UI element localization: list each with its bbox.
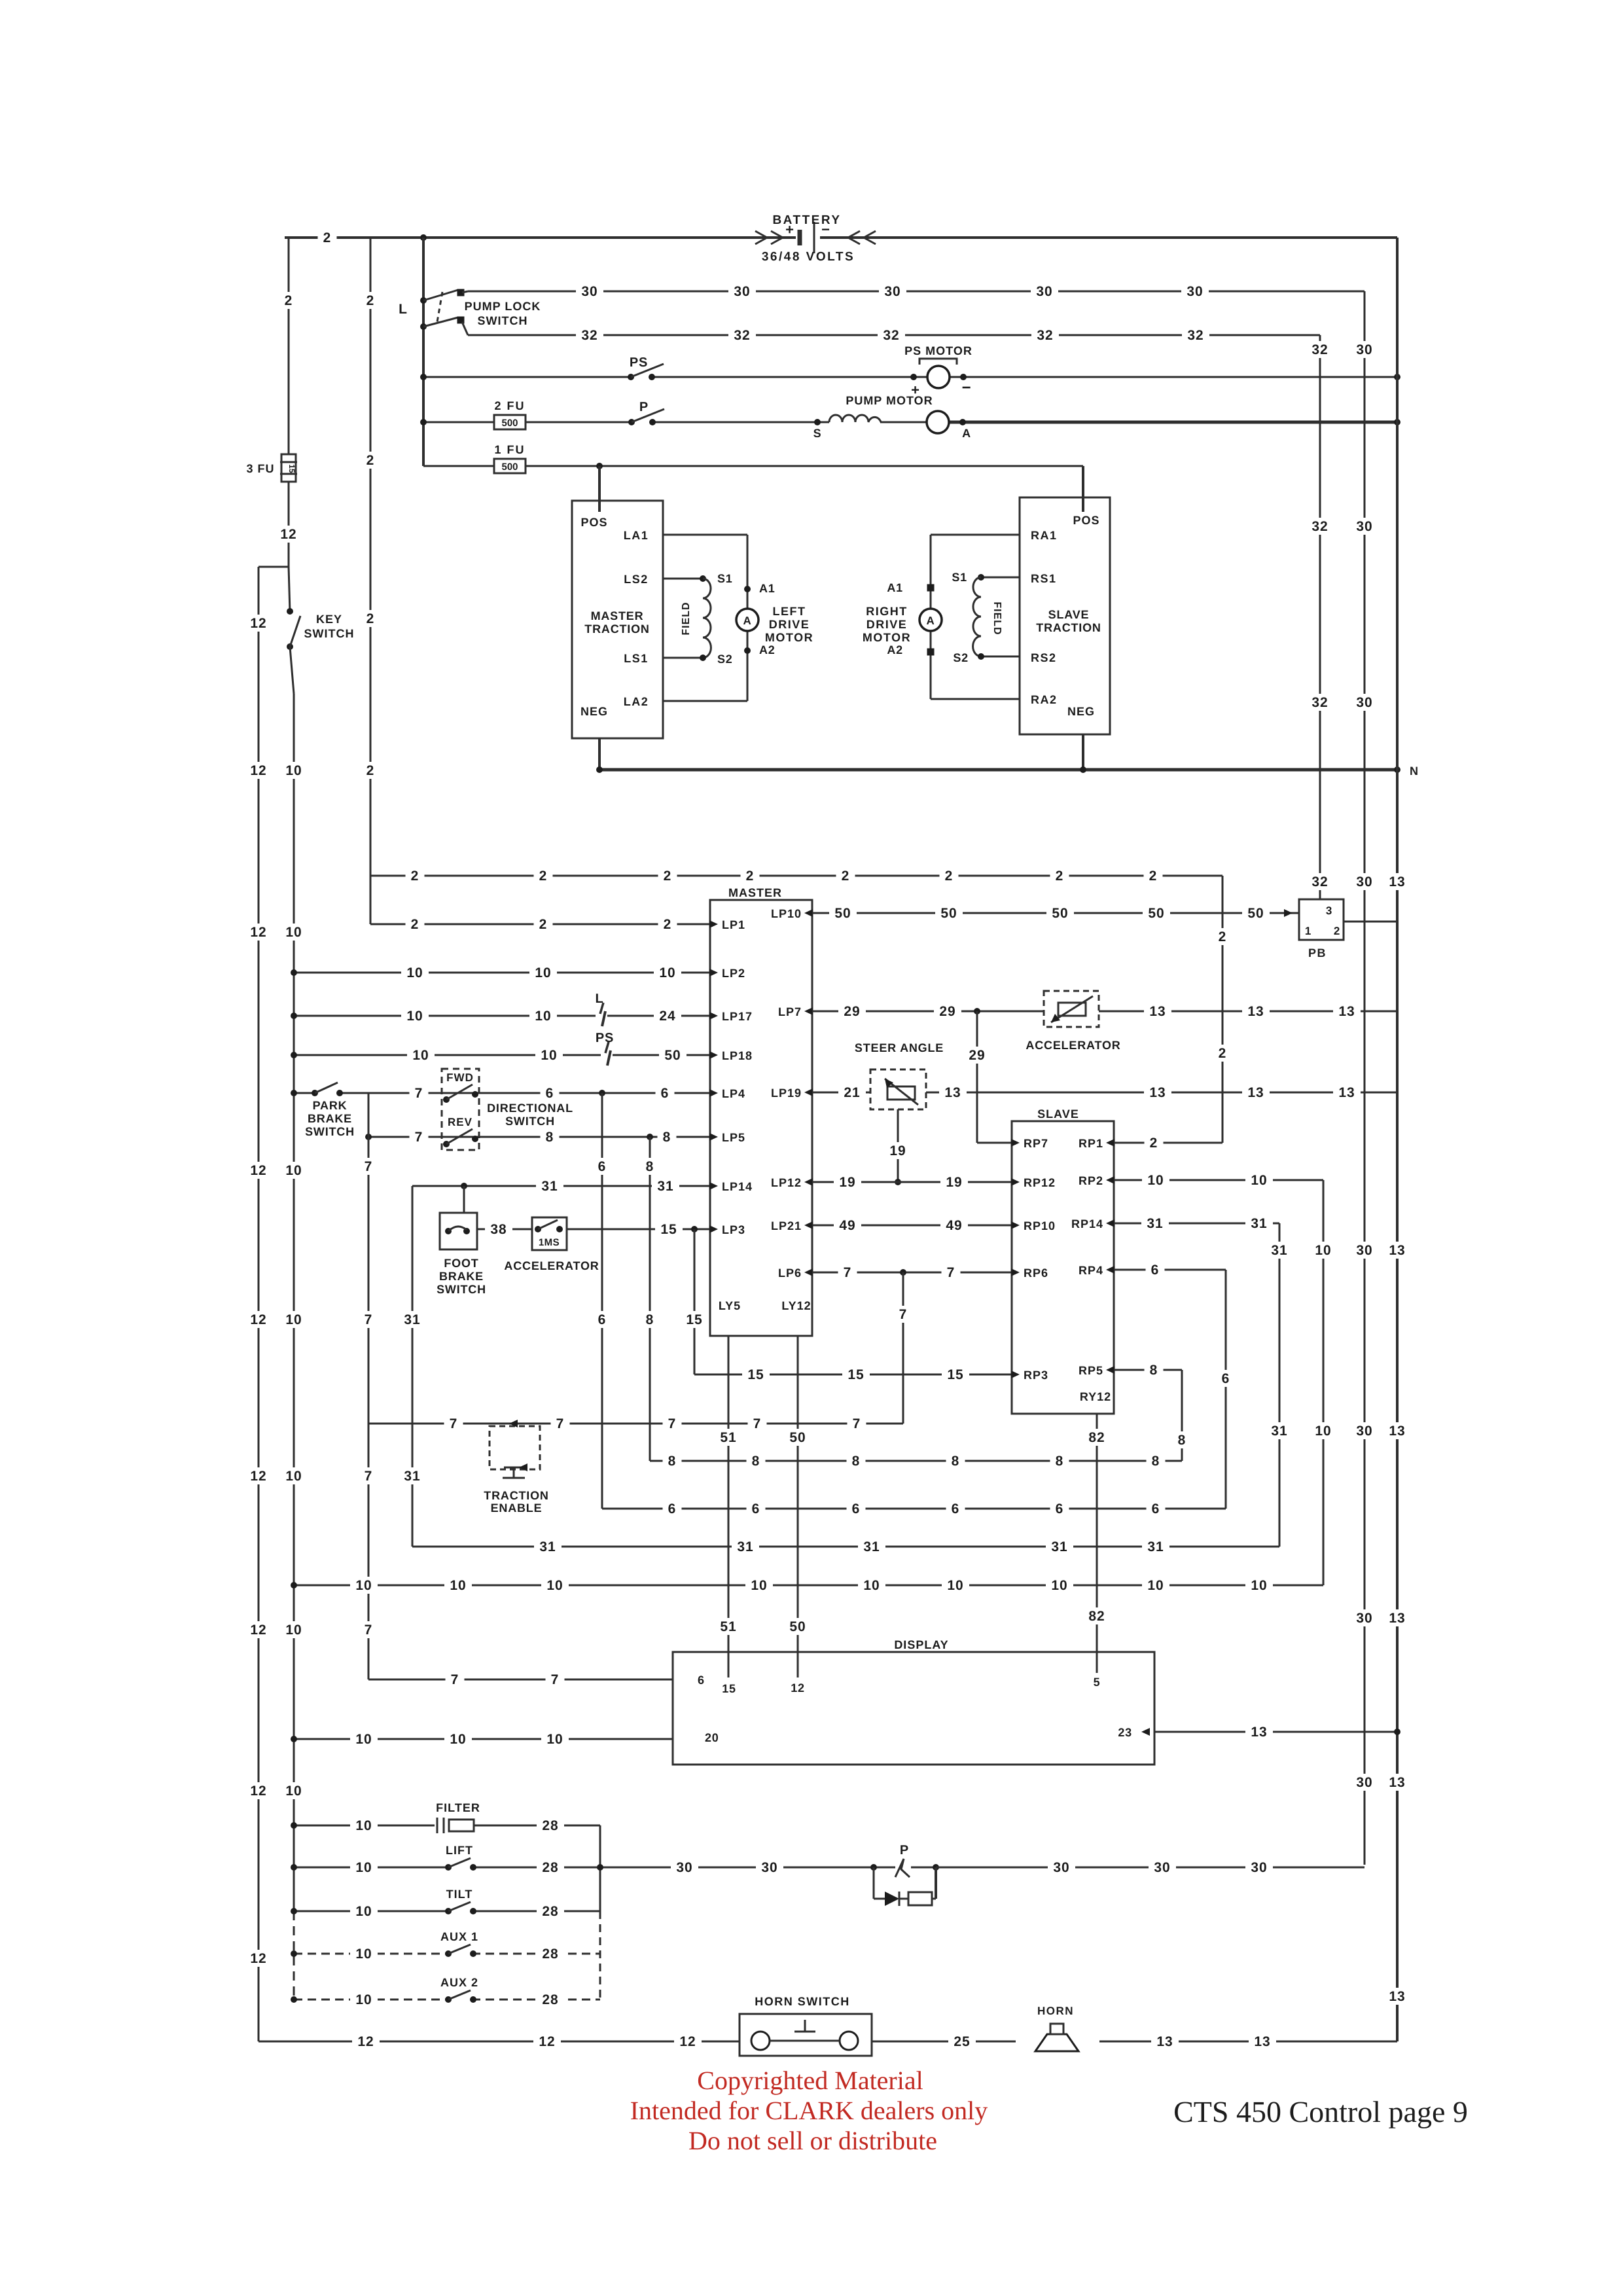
svg-text:10: 10	[406, 965, 423, 980]
wire 49 LP21 to RP10	[812, 1217, 1012, 1234]
svg-text:25: 25	[954, 2034, 970, 2049]
svg-text:5: 5	[1094, 1676, 1101, 1689]
pin RP1	[1079, 1137, 1115, 1150]
svg-text:13: 13	[1389, 1243, 1405, 1258]
wire 8 row	[650, 1452, 1182, 1469]
svg-text:15: 15	[722, 1682, 736, 1695]
svg-text:S2: S2	[953, 651, 969, 664]
wire 7 rail	[359, 1093, 378, 1679]
wire 30 top row	[468, 283, 1364, 300]
svg-text:ENABLE: ENABLE	[491, 1501, 543, 1515]
svg-text:8: 8	[1152, 1454, 1160, 1469]
svg-text:12: 12	[250, 1951, 266, 1966]
wire 10 rail RP2 down	[1310, 1180, 1337, 1585]
svg-text:31: 31	[863, 1539, 880, 1554]
svg-text:7: 7	[853, 1416, 861, 1431]
svg-text:DISPLAY: DISPLAY	[894, 1638, 948, 1651]
wire 10/28 FILTER row	[291, 1817, 600, 1834]
svg-text:8: 8	[646, 1312, 654, 1327]
svg-text:21: 21	[844, 1085, 860, 1100]
svg-text:30: 30	[1356, 695, 1372, 710]
svg-text:12: 12	[539, 2034, 555, 2049]
svg-text:PUMP LOCK: PUMP LOCK	[465, 300, 541, 313]
svg-text:A1: A1	[887, 581, 903, 594]
svg-text:12: 12	[250, 1312, 266, 1327]
svg-text:1: 1	[1305, 925, 1311, 937]
svg-text:POS: POS	[1073, 514, 1099, 527]
wire 21/13 LP19 row	[812, 1084, 1397, 1101]
svg-text:10: 10	[450, 1578, 466, 1593]
svg-text:30: 30	[734, 284, 750, 299]
wire LY12 drop	[784, 1336, 811, 1677]
inline connector L	[595, 992, 607, 1028]
svg-text:RA2: RA2	[1031, 693, 1058, 706]
svg-text:A: A	[962, 427, 971, 440]
wire park brake row to LP4	[291, 1085, 710, 1102]
svg-text:8: 8	[952, 1454, 960, 1469]
wire 10/28 AUX2 row	[291, 1991, 600, 2008]
svg-text:13: 13	[1389, 1775, 1405, 1790]
svg-text:28: 28	[542, 1992, 558, 2007]
svg-text:10: 10	[285, 1784, 302, 1799]
wire battery feed rail	[422, 238, 425, 466]
svg-text:2: 2	[1219, 1046, 1227, 1061]
pin LP2	[709, 967, 745, 980]
svg-text:LP12: LP12	[771, 1176, 802, 1189]
wire 10 rail below key switch	[280, 647, 308, 2000]
pin LY12	[781, 1299, 811, 1312]
wire 10/50 row to LP18	[291, 1047, 710, 1064]
wire 2 RP1 row	[1114, 1134, 1222, 1151]
svg-text:12: 12	[357, 2034, 374, 2049]
svg-text:PS: PS	[630, 355, 648, 370]
key switch S-KEY	[287, 567, 300, 650]
svg-text:NEG: NEG	[580, 705, 608, 718]
svg-text:7: 7	[365, 1312, 373, 1327]
svg-text:TRACTION: TRACTION	[484, 1489, 548, 1502]
svg-text:31: 31	[1271, 1243, 1287, 1258]
svg-text:RP4: RP4	[1079, 1264, 1103, 1277]
wire 19 LP12 to RP12	[812, 1174, 1012, 1191]
svg-text:MOTOR: MOTOR	[863, 631, 911, 644]
wire 2 rail to slave RP1	[1213, 876, 1232, 1143]
svg-text:7: 7	[415, 1130, 423, 1145]
pin LP10	[771, 907, 813, 920]
svg-text:PB: PB	[1308, 946, 1327, 960]
wire master POS stub	[598, 466, 601, 512]
svg-text:L: L	[399, 302, 408, 317]
svg-text:LA1: LA1	[624, 529, 649, 542]
svg-text:LS1: LS1	[624, 652, 649, 665]
connector PB	[1299, 899, 1344, 960]
label ACCELERATOR	[1026, 1039, 1120, 1052]
switch AUX 1	[445, 1945, 476, 1957]
pin LP6	[778, 1266, 813, 1280]
svg-text:RP6: RP6	[1024, 1266, 1048, 1280]
battery B1 symbol	[755, 221, 876, 253]
svg-text:32: 32	[1311, 342, 1328, 357]
svg-text:12: 12	[791, 1681, 805, 1695]
svg-text:30: 30	[1053, 1860, 1069, 1875]
panel SLAVE logic box	[1012, 1121, 1114, 1414]
svg-text:LS2: LS2	[624, 573, 649, 586]
svg-text:RA1: RA1	[1031, 529, 1058, 542]
fuse 2FU 500A	[494, 399, 526, 429]
inline connector PS	[596, 1031, 614, 1067]
pin LP4	[709, 1087, 745, 1100]
switch AUX 2	[445, 1990, 476, 2003]
svg-text:LA2: LA2	[624, 695, 649, 708]
wire 31 row	[412, 1538, 1279, 1555]
svg-text:30: 30	[884, 284, 901, 299]
wire 10 RP2 row	[1114, 1172, 1323, 1189]
wire 50 PB pin1 entry	[1284, 912, 1299, 914]
svg-text:50: 50	[664, 1048, 681, 1063]
wire 13 display to rail	[1154, 1723, 1400, 1740]
pump lock switch link	[399, 292, 442, 322]
svg-text:10: 10	[355, 1860, 372, 1875]
wire LS1 to S2	[663, 653, 733, 666]
svg-text:13: 13	[1389, 1989, 1405, 2004]
switch 1MS accelerator	[532, 1217, 567, 1250]
svg-text:6: 6	[752, 1501, 760, 1516]
switch REV contact	[443, 1116, 478, 1147]
svg-text:32: 32	[1311, 874, 1328, 889]
svg-text:DRIVE: DRIVE	[769, 618, 810, 631]
svg-text:10: 10	[355, 1992, 372, 2007]
svg-text:7: 7	[415, 1086, 423, 1101]
label POS (slave)	[1073, 514, 1099, 527]
svg-text:2: 2	[366, 293, 375, 308]
svg-text:2: 2	[366, 453, 375, 468]
pin RP14	[1071, 1217, 1115, 1230]
svg-text:50: 50	[940, 906, 957, 921]
pin 6 (display)	[698, 1674, 705, 1687]
svg-text:RP10: RP10	[1024, 1219, 1056, 1232]
svg-text:10: 10	[947, 1578, 963, 1593]
switch DIRECTIONAL box	[442, 1069, 479, 1150]
wire master NEG stub	[598, 738, 601, 770]
svg-text:12: 12	[250, 1784, 266, 1799]
svg-text:STEER ANGLE: STEER ANGLE	[855, 1041, 944, 1054]
svg-text:SWITCH: SWITCH	[304, 627, 355, 640]
svg-text:7: 7	[365, 1623, 373, 1638]
label MASTER TRACTION	[584, 609, 649, 636]
svg-text:1 FU: 1 FU	[494, 443, 525, 456]
svg-text:P: P	[639, 400, 649, 414]
wire 10 row to display	[291, 1731, 673, 1748]
wire 82 RY12 drop	[1083, 1414, 1111, 1673]
label SLAVE TRACTION	[1036, 608, 1101, 634]
svg-text:7: 7	[551, 1672, 560, 1687]
svg-text:50: 50	[1148, 906, 1164, 921]
svg-text:10: 10	[1147, 1578, 1164, 1593]
svg-text:FWD: FWD	[446, 1071, 474, 1084]
wire 6 rail RP4 down	[1217, 1270, 1236, 1509]
pin LP12	[771, 1176, 813, 1189]
svg-text:2: 2	[411, 869, 419, 884]
svg-text:SWITCH: SWITCH	[478, 314, 528, 327]
svg-text:13: 13	[1156, 2034, 1173, 2049]
svg-text:6: 6	[1152, 1501, 1160, 1516]
svg-text:13: 13	[1389, 1611, 1405, 1626]
label 36/48 VOLTS	[762, 250, 855, 264]
svg-text:2: 2	[1334, 925, 1340, 937]
wire 12/25/13 horn row	[259, 2033, 1397, 2050]
svg-text:NEG: NEG	[1067, 705, 1095, 718]
svg-text:50: 50	[1247, 906, 1264, 921]
wire 15 row to LP3	[567, 1221, 710, 1238]
switch contact PS	[628, 355, 664, 380]
switch TRACTION ENABLE box	[490, 1420, 540, 1478]
svg-text:LP14: LP14	[722, 1180, 753, 1193]
svg-text:7: 7	[753, 1416, 762, 1431]
svg-text:10: 10	[1315, 1243, 1331, 1258]
svg-text:36/48 VOLTS: 36/48 VOLTS	[762, 250, 855, 264]
panel MASTER TRACTION box	[572, 501, 663, 738]
svg-text:LP3: LP3	[722, 1223, 745, 1236]
svg-text:8: 8	[752, 1454, 760, 1469]
pin RP10	[1011, 1219, 1056, 1232]
svg-text:12: 12	[679, 2034, 696, 2049]
svg-text:13: 13	[1389, 1424, 1405, 1439]
switch PARK BRAKE	[312, 1083, 343, 1096]
pin 12 (display)	[791, 1681, 805, 1695]
svg-text:38: 38	[490, 1222, 507, 1237]
svg-text:S1: S1	[952, 571, 967, 584]
svg-text:10: 10	[355, 1732, 372, 1747]
svg-text:10: 10	[412, 1048, 429, 1063]
svg-text:DIRECTIONAL: DIRECTIONAL	[487, 1102, 573, 1115]
svg-text:6: 6	[852, 1501, 861, 1516]
wire 32 right rail	[1306, 335, 1334, 899]
svg-text:13: 13	[1247, 1004, 1264, 1019]
svg-text:28: 28	[542, 1904, 558, 1919]
svg-text:15: 15	[747, 1367, 764, 1382]
pin LS1	[624, 652, 649, 665]
svg-text:LP2: LP2	[722, 967, 745, 980]
pin LP7	[778, 1005, 813, 1018]
wire RS1 to S1	[952, 571, 1020, 584]
motor M-L LEFT DRIVE armature	[736, 582, 776, 656]
svg-text:LP10: LP10	[771, 907, 802, 920]
wire 8 drop from LP5 row	[641, 1137, 660, 1461]
svg-text:30: 30	[1356, 519, 1372, 534]
wire 32 top row	[468, 327, 1320, 344]
pin RP6	[1011, 1266, 1048, 1280]
label KEY SWITCH	[304, 613, 355, 640]
pin LY5	[719, 1299, 741, 1312]
svg-text:A: A	[926, 615, 935, 627]
svg-text:P: P	[900, 1843, 909, 1857]
svg-text:2: 2	[539, 917, 548, 932]
svg-text:10: 10	[285, 925, 302, 940]
wire NEG return bus	[596, 764, 1419, 778]
svg-text:A1: A1	[759, 582, 776, 595]
svg-text:15: 15	[847, 1367, 864, 1382]
label TRACTION ENABLE	[484, 1489, 548, 1515]
svg-text:6: 6	[1151, 1263, 1160, 1278]
svg-text:23: 23	[1118, 1726, 1132, 1739]
fuse 3FU 15A	[280, 454, 297, 482]
svg-text:15: 15	[686, 1312, 702, 1327]
label LEFT DRIVE MOTOR	[765, 605, 813, 644]
svg-text:10: 10	[541, 1048, 557, 1063]
svg-text:6: 6	[952, 1501, 960, 1516]
pin LA1	[624, 529, 649, 542]
svg-text:Intended for CLARK dealers onl: Intended for CLARK dealers only	[630, 2096, 988, 2125]
svg-text:13: 13	[1254, 2034, 1270, 2049]
svg-text:2: 2	[285, 293, 293, 308]
label AUX 1	[440, 1930, 478, 1943]
svg-text:13: 13	[1247, 1085, 1264, 1100]
svg-text:10: 10	[355, 1904, 372, 1919]
wire RA1 to A1	[931, 535, 1020, 609]
svg-text:29: 29	[939, 1004, 955, 1019]
panel MASTER logic box	[710, 900, 812, 1336]
pin RA2	[1031, 693, 1058, 706]
svg-text:SWITCH: SWITCH	[305, 1125, 355, 1138]
svg-text:8: 8	[852, 1454, 861, 1469]
wire 31 rail RP14 down	[1266, 1223, 1293, 1547]
svg-text:7: 7	[450, 1416, 458, 1431]
svg-text:SWITCH: SWITCH	[505, 1115, 555, 1128]
pin LP14	[709, 1180, 753, 1193]
svg-text:32: 32	[1037, 328, 1053, 343]
label PARK BRAKE SWITCH	[305, 1099, 355, 1138]
svg-text:12: 12	[250, 1163, 266, 1178]
svg-text:10: 10	[355, 1946, 372, 1962]
svg-text:L: L	[595, 992, 603, 1006]
panel DISPLAY box	[673, 1652, 1154, 1765]
svg-text:32: 32	[1311, 695, 1328, 710]
wire 19 steer angle drop	[884, 1109, 912, 1185]
pin LP19	[771, 1086, 813, 1100]
wire 12 left rail	[245, 567, 272, 2041]
svg-text:8: 8	[1150, 1363, 1158, 1378]
svg-text:6: 6	[668, 1501, 677, 1516]
label POS (master)	[580, 516, 607, 529]
svg-text:13: 13	[1338, 1085, 1355, 1100]
svg-text:KEY: KEY	[316, 613, 342, 626]
svg-text:13: 13	[1149, 1085, 1166, 1100]
svg-text:32: 32	[734, 328, 750, 343]
wire 29 drop to RP7	[963, 1011, 1012, 1143]
wire slave NEG stub	[1082, 734, 1084, 770]
svg-text:12: 12	[250, 1469, 266, 1484]
svg-text:30: 30	[1036, 284, 1052, 299]
wire 10/28 TILT row	[291, 1903, 600, 1920]
svg-text:30: 30	[761, 1860, 777, 1875]
wire REV row to LP5	[365, 1128, 710, 1145]
svg-text:10: 10	[355, 1578, 372, 1593]
wire 50 LP10 to PB	[812, 905, 1293, 922]
svg-text:2: 2	[1056, 869, 1064, 884]
svg-text:82: 82	[1088, 1430, 1105, 1445]
svg-text:24: 24	[659, 1009, 675, 1024]
svg-text:30: 30	[1356, 342, 1372, 357]
wire 13 battery negative right rail	[1383, 238, 1411, 2041]
wire 38 foot brake to 1MS	[477, 1221, 532, 1238]
svg-text:31: 31	[1251, 1216, 1267, 1231]
svg-text:28: 28	[542, 1860, 558, 1875]
svg-text:8: 8	[1056, 1454, 1064, 1469]
svg-text:LP21: LP21	[771, 1219, 802, 1232]
wire 31 rail down	[399, 1186, 426, 1547]
footer distribute line 3	[688, 2126, 937, 2155]
svg-text:AUX 2: AUX 2	[440, 1976, 478, 1989]
svg-text:50: 50	[834, 906, 851, 921]
svg-text:30: 30	[1356, 1611, 1372, 1626]
svg-text:82: 82	[1088, 1609, 1105, 1624]
svg-text:8: 8	[546, 1130, 554, 1145]
switch contact P	[628, 400, 664, 425]
relay P coil with snubber	[870, 1843, 939, 1906]
svg-text:RP12: RP12	[1024, 1176, 1056, 1189]
svg-text:12: 12	[250, 616, 266, 631]
svg-text:LP18: LP18	[722, 1049, 753, 1062]
svg-text:7: 7	[899, 1307, 908, 1322]
svg-text:LP7: LP7	[778, 1005, 802, 1018]
svg-text:10: 10	[285, 1163, 302, 1178]
wire PB pin2 to 13 rail	[1344, 921, 1397, 923]
svg-text:2: 2	[746, 869, 755, 884]
junction battery bus / pump-lock rail	[420, 234, 427, 241]
svg-text:6: 6	[661, 1086, 669, 1101]
wire 29/13 LP7 row	[812, 1003, 1397, 1020]
svg-text:30: 30	[1356, 1424, 1372, 1439]
inductor master FIELD	[681, 579, 711, 658]
label HORN	[1037, 2005, 1074, 2017]
svg-text:3: 3	[1326, 905, 1332, 917]
svg-text:A2: A2	[887, 643, 903, 656]
label 3 FU	[246, 462, 274, 475]
svg-text:CTS 450 Control page 9: CTS 450 Control page 9	[1173, 2095, 1468, 2128]
svg-text:2: 2	[842, 869, 850, 884]
switch LIFT	[445, 1858, 476, 1871]
pin RS2	[1031, 651, 1057, 664]
wire 7 row (traction enable)	[368, 1415, 903, 1432]
wire 10/28 AUX1 row	[291, 1945, 600, 1962]
svg-text:31: 31	[541, 1179, 558, 1194]
svg-text:500: 500	[501, 461, 518, 473]
svg-text:ACCELERATOR: ACCELERATOR	[504, 1259, 599, 1272]
pump lock switch S-PL pole 1	[420, 289, 468, 304]
wire LA2 to A2	[663, 631, 747, 701]
wire 31 row to LP14	[412, 1177, 710, 1194]
svg-text:2: 2	[366, 611, 375, 626]
svg-text:10: 10	[863, 1578, 880, 1593]
svg-text:6: 6	[1056, 1501, 1064, 1516]
label TILT	[446, 1888, 473, 1901]
pin RP12	[1011, 1176, 1056, 1189]
svg-text:8: 8	[1178, 1433, 1186, 1448]
svg-text:51: 51	[720, 1430, 736, 1445]
svg-text:2: 2	[539, 869, 548, 884]
svg-text:PUMP MOTOR: PUMP MOTOR	[846, 394, 933, 407]
switch TILT	[445, 1902, 476, 1914]
label STEER ANGLE	[855, 1041, 944, 1054]
svg-text:10: 10	[546, 1578, 563, 1593]
svg-text:50: 50	[789, 1430, 806, 1445]
wire slave POS drop	[1082, 466, 1084, 512]
svg-text:50: 50	[1052, 906, 1068, 921]
svg-text:S1: S1	[717, 572, 733, 585]
pin RP5	[1079, 1364, 1115, 1377]
label ACCELERATOR (pedal)	[504, 1259, 599, 1272]
pin RS1	[1031, 572, 1057, 585]
svg-text:19: 19	[889, 1143, 906, 1158]
